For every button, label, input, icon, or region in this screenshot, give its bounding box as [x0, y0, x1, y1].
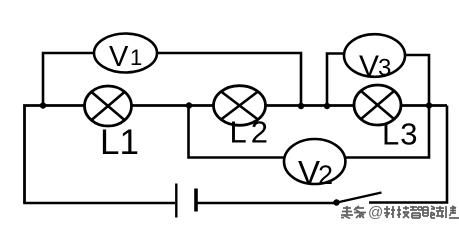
- svg-text:V: V: [298, 154, 320, 191]
- wire: V3 branch left riser and lead: [327, 54, 345, 106]
- svg-text:1: 1: [130, 45, 142, 70]
- voltmeter V3: [344, 34, 405, 83]
- battery: long plate (+): [175, 184, 177, 218]
- svg-text:2: 2: [318, 160, 333, 190]
- svg-text:3: 3: [378, 55, 391, 82]
- svg-text:@: @: [368, 204, 383, 221]
- wire: V1 right lead and riser to node B: [157, 53, 301, 105]
- wire: main bus segment L2-L3: [265, 104, 355, 107]
- wire: bottom left to battery: [23, 202, 175, 205]
- wire: main bus segment A (left corner to L1): [25, 106, 86, 204]
- wire: right side drop: [369, 106, 447, 203]
- lamp L1: [85, 86, 132, 126]
- switch: pivot dot: [333, 199, 339, 205]
- watermark: 头条 @科技智能制造 (drawn as strokes): [341, 204, 459, 221]
- switch: lever: [337, 193, 382, 203]
- voltmeter V1: [94, 34, 157, 74]
- wire: V1 branch left riser and top lead: [43, 53, 94, 105]
- svg-text:V: V: [109, 41, 129, 73]
- svg-text:V: V: [359, 50, 379, 83]
- wire: main bus segment L3 to right corner: [400, 104, 447, 107]
- battery: short plate (-): [194, 189, 198, 212]
- node B junction dot (V1 right / bus): [298, 103, 304, 109]
- node A junction dot: [40, 102, 46, 108]
- wire: V2 branch left riser and lead: [189, 106, 286, 158]
- wire: battery to switch: [198, 202, 337, 205]
- node E junction dot (L2 branch): [186, 102, 192, 108]
- svg-text:L2: L2: [230, 115, 272, 150]
- svg-text:L3: L3: [382, 117, 418, 152]
- node C junction dot (V3 left / bus): [324, 103, 330, 109]
- wire: V3 right lead and riser to node D: [404, 55, 429, 105]
- node D junction dot (right bus): [426, 102, 432, 108]
- lamp L3: [354, 85, 401, 125]
- lamp L2: [214, 86, 266, 126]
- wire: main bus segment L1-L2: [131, 104, 214, 107]
- wire: V2 right lead and riser to node D: [345, 106, 429, 158]
- voltmeter V2: [284, 139, 345, 191]
- svg-text:L1: L1: [100, 123, 139, 162]
